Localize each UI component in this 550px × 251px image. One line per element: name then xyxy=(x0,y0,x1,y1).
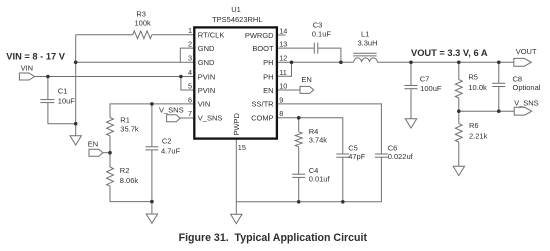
svg-text:3.74k: 3.74k xyxy=(309,136,328,145)
svg-text:L1: L1 xyxy=(361,29,369,38)
svg-text:47pF: 47pF xyxy=(348,152,366,161)
svg-text:R2: R2 xyxy=(120,166,130,175)
junction C4 bottom xyxy=(297,200,301,204)
junction R4 top xyxy=(297,116,301,120)
svg-text:V_SNS: V_SNS xyxy=(198,114,223,123)
svg-text:35.7k: 35.7k xyxy=(120,124,139,133)
junction gnd rail pin3 xyxy=(74,61,78,65)
svg-text:R1: R1 xyxy=(120,115,130,124)
node VOUT flag xyxy=(514,58,532,66)
svg-text:7: 7 xyxy=(188,109,192,118)
svg-text:V_SNS: V_SNS xyxy=(514,98,539,107)
wire bottom rail xyxy=(236,201,381,203)
junction C1 bottom xyxy=(74,122,78,126)
resistor R6 xyxy=(455,124,462,142)
svg-text:C3: C3 xyxy=(313,20,323,29)
svg-text:U1: U1 xyxy=(231,5,241,14)
wire GND pin3 xyxy=(76,61,195,63)
wire C5 to rail xyxy=(342,157,344,202)
capacitor C4 xyxy=(292,173,305,175)
svg-text:EN: EN xyxy=(301,75,311,84)
svg-text:R5: R5 xyxy=(468,73,478,82)
svg-text:100uF: 100uF xyxy=(420,84,442,93)
svg-text:13: 13 xyxy=(279,40,287,49)
wire pin10 EN xyxy=(277,89,300,91)
svg-text:COMP: COMP xyxy=(251,114,274,123)
wire pin13 BOOT to C3 xyxy=(277,47,314,49)
svg-text:GND: GND xyxy=(198,44,215,53)
junction C8 bottom xyxy=(497,109,501,113)
wire VIN line pin4 PVIN xyxy=(34,76,194,78)
svg-text:10.0k: 10.0k xyxy=(468,83,487,92)
svg-text:14: 14 xyxy=(279,26,287,35)
wire R5 branch xyxy=(458,62,460,79)
svg-text:Figure 31. Typical Applicatio: Figure 31. Typical Application Circuit xyxy=(179,232,368,244)
junction PVIN bracket xyxy=(179,75,183,79)
wire pin15 PWPD xyxy=(235,139,237,202)
wire R4 branch xyxy=(298,118,300,132)
svg-text:PWPD: PWPD xyxy=(232,112,241,135)
svg-text:8.06k: 8.06k xyxy=(120,176,139,185)
svg-text:5: 5 xyxy=(188,81,192,90)
svg-text:PVIN: PVIN xyxy=(198,86,216,95)
svg-text:2.21k: 2.21k xyxy=(469,131,488,140)
ground G4 xyxy=(405,119,416,128)
svg-text:8: 8 xyxy=(279,109,283,118)
svg-text:6: 6 xyxy=(188,95,192,104)
wire R4 to C4 xyxy=(298,147,300,174)
junction C5 bottom xyxy=(341,200,345,204)
svg-text:VIN: VIN xyxy=(198,100,211,109)
svg-text:10uF: 10uF xyxy=(58,97,76,106)
svg-text:15: 15 xyxy=(238,143,246,152)
svg-text:2: 2 xyxy=(188,40,192,49)
resistor R3 xyxy=(133,31,152,39)
resistor R2 xyxy=(107,167,114,186)
wire C6 to rail xyxy=(380,157,382,202)
svg-text:EN: EN xyxy=(88,140,98,149)
svg-text:PVIN: PVIN xyxy=(198,72,216,81)
svg-text:VIN: VIN xyxy=(21,63,34,72)
wire R2 bottom rail xyxy=(110,186,152,201)
wire L1 to VOUT flag xyxy=(377,61,513,63)
node V_SNS flag left xyxy=(167,115,181,122)
ground G5 xyxy=(453,166,464,175)
svg-text:12: 12 xyxy=(279,54,287,63)
wire pin15 ground stub xyxy=(235,202,237,215)
svg-text:0.1uF: 0.1uF xyxy=(312,29,332,38)
capacitor C3 xyxy=(313,43,315,54)
capacitor C8 xyxy=(498,62,500,83)
wire PH line xyxy=(277,61,354,63)
svg-text:VOUT: VOUT xyxy=(516,47,537,56)
svg-text:1: 1 xyxy=(188,26,192,35)
node EN flag left xyxy=(89,149,103,156)
svg-text:11: 11 xyxy=(279,68,287,77)
capacitor C7 xyxy=(410,62,412,85)
junction EN divider xyxy=(108,151,112,155)
junction R5 top xyxy=(457,61,461,65)
wire R1 to R2 xyxy=(109,136,111,167)
svg-text:GND: GND xyxy=(198,58,215,67)
junction R5 bottom xyxy=(457,109,461,113)
capacitor C2 xyxy=(151,104,153,147)
svg-text:C2: C2 xyxy=(162,136,172,145)
svg-text:4.7uF: 4.7uF xyxy=(161,146,181,155)
svg-text:VIN = 8 - 17 V: VIN = 8 - 17 V xyxy=(6,51,65,61)
svg-text:VOUT = 3.3 V, 6 A: VOUT = 3.3 V, 6 A xyxy=(411,48,488,58)
wire V_SNS to pin7 xyxy=(180,117,194,119)
resistor R4 xyxy=(295,132,302,147)
svg-text:C1: C1 xyxy=(58,87,68,96)
node EN flag right xyxy=(300,86,314,93)
capacitor C5 xyxy=(336,153,349,155)
svg-text:3.3uH: 3.3uH xyxy=(358,39,378,48)
wire R6 to ground xyxy=(458,142,460,166)
svg-text:R3: R3 xyxy=(136,9,146,18)
svg-text:100k: 100k xyxy=(135,19,152,28)
pin14 stub xyxy=(277,34,286,36)
svg-text:4: 4 xyxy=(188,68,192,77)
wire R3 line pin1 RT/CLK xyxy=(76,34,133,36)
svg-text:0.022uf: 0.022uf xyxy=(388,152,414,161)
wire C4 to rail xyxy=(298,177,300,201)
svg-text:PWRGD: PWRGD xyxy=(245,31,274,40)
svg-text:EN: EN xyxy=(263,86,273,95)
wire R5 to junction xyxy=(458,98,460,124)
svg-text:PH: PH xyxy=(263,72,273,81)
capacitor C1 xyxy=(47,77,49,100)
svg-text:10: 10 xyxy=(279,81,287,90)
junction C2 top xyxy=(150,102,154,106)
ground G3 xyxy=(231,214,242,223)
ground G1 xyxy=(70,136,81,145)
wire pin5 PVIN bracket xyxy=(181,77,194,91)
inductor L1 xyxy=(354,58,378,62)
svg-text:TPS54623RHL: TPS54623RHL xyxy=(212,15,262,24)
junction C3 PH xyxy=(339,61,343,65)
svg-text:0.01uf: 0.01uf xyxy=(309,174,331,183)
svg-text:3: 3 xyxy=(188,54,192,63)
svg-text:R6: R6 xyxy=(469,121,479,130)
resistor R5 xyxy=(455,80,462,98)
ground G2 xyxy=(146,214,157,223)
svg-text:Optional: Optional xyxy=(513,83,541,92)
junction C2 bottom xyxy=(150,200,154,204)
junction C1 top xyxy=(46,75,50,79)
IC U1 body xyxy=(194,27,277,138)
wire pin8 COMP to C5 xyxy=(277,118,343,154)
svg-text:9: 9 xyxy=(279,95,283,104)
wire pin11 PH bracket xyxy=(277,62,292,76)
resistor R1 xyxy=(107,118,114,136)
wire C3 to PH xyxy=(318,48,341,62)
svg-text:RT/CLK: RT/CLK xyxy=(198,31,225,40)
ground rail vertical xyxy=(75,35,77,136)
capacitor C6 xyxy=(375,153,388,155)
svg-text:SS/TR: SS/TR xyxy=(252,100,275,109)
svg-text:BOOT: BOOT xyxy=(252,44,274,53)
junction PH bracket xyxy=(290,61,294,65)
wire VSNS junction line xyxy=(459,110,514,112)
junction C7 top xyxy=(409,61,413,65)
svg-text:PH: PH xyxy=(263,58,273,67)
wire pin6 VIN line xyxy=(110,104,194,118)
node V_SNS flag right xyxy=(514,107,532,115)
junction C8 top xyxy=(497,61,501,65)
svg-text:C7: C7 xyxy=(420,74,430,83)
node VIN flag xyxy=(19,73,34,80)
wire pin9 SSTR to C6 xyxy=(277,104,382,154)
wire pin2 GND bracket xyxy=(180,48,194,62)
svg-text:V_SNS: V_SNS xyxy=(159,105,184,114)
wire EN flag to R1R2 xyxy=(103,152,110,154)
